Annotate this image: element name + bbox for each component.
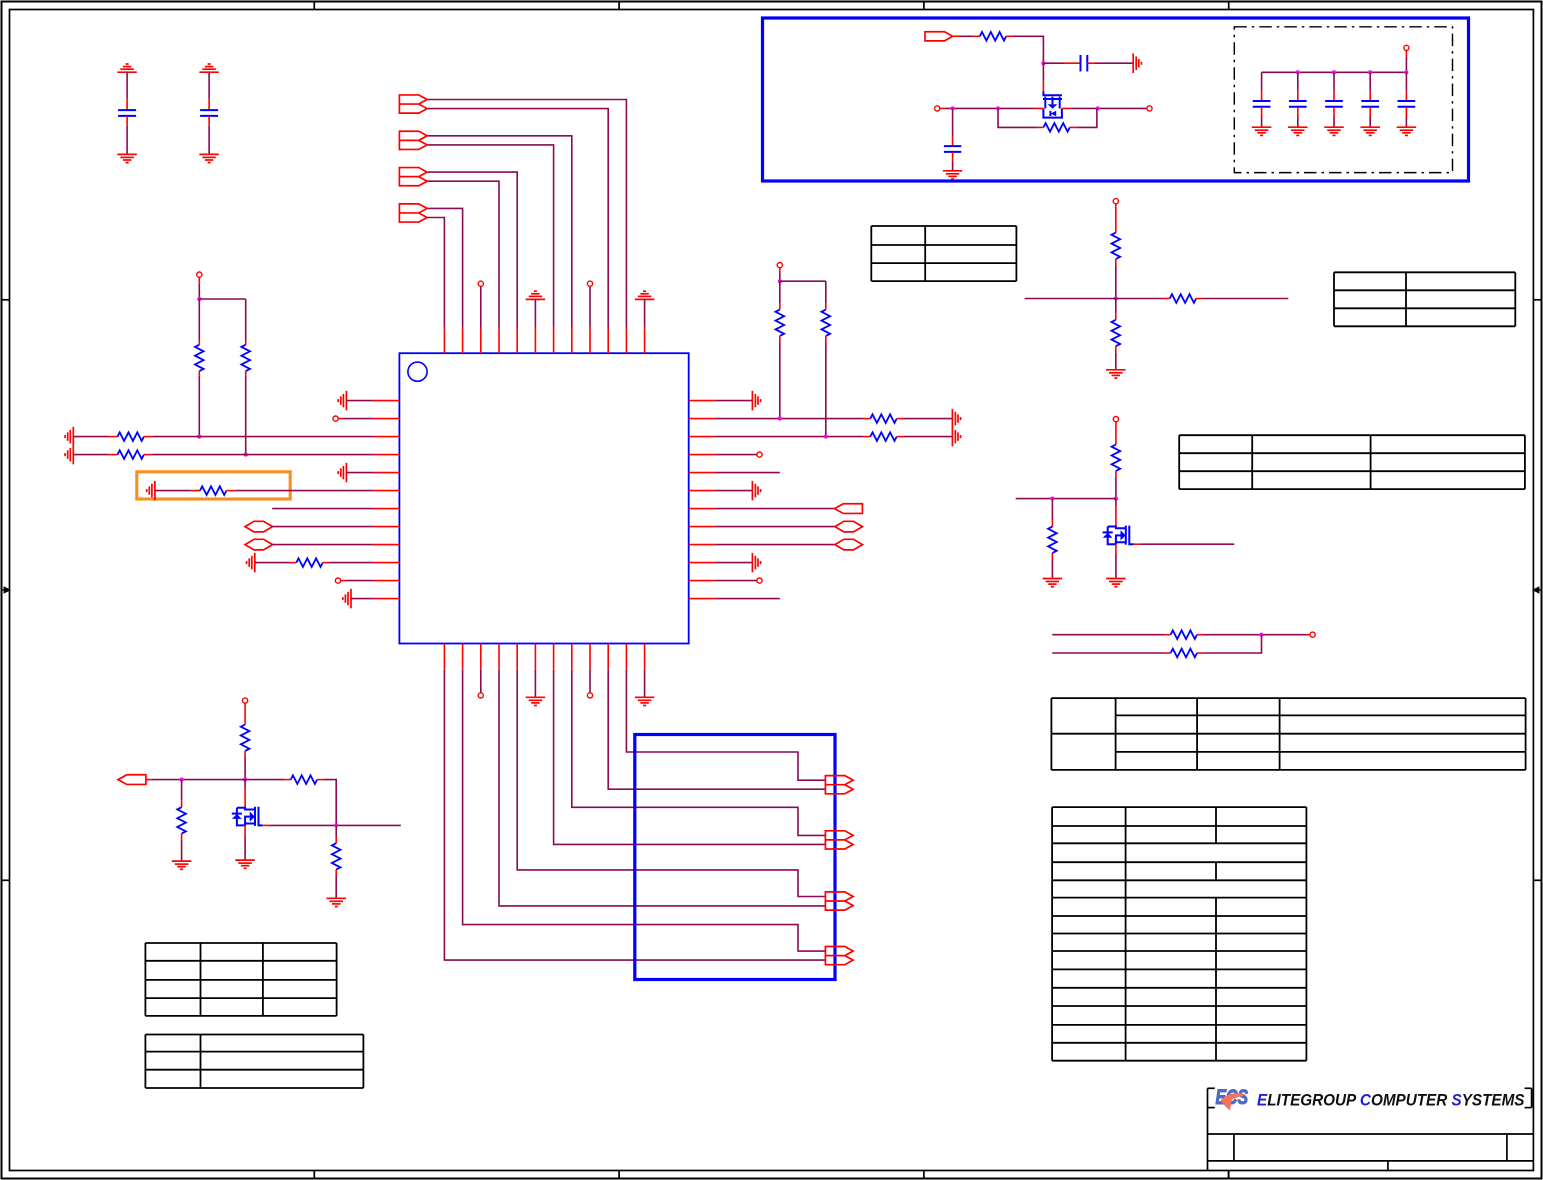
resistor R14 (horizontal) — [1170, 294, 1196, 303]
no-connect circle at ic pin y=454.6 — [715, 454, 757, 456]
junction node at 199.3,436.6 — [197, 435, 201, 439]
wire R7 down to wire y=418.6 — [779, 336, 781, 419]
border mid arrow right — [1532, 586, 1542, 593]
power circle above resistor R16 — [1113, 417, 1118, 422]
capacitor C4 — [944, 146, 961, 152]
resistor R20 (vertical) — [241, 725, 250, 751]
wire C8 to ground — [1369, 107, 1371, 127]
wire gate node down to mosfet Q1 gate — [1042, 63, 1044, 91]
resistor R19 (horizontal) — [1171, 649, 1197, 658]
ic U1 body — [399, 353, 688, 643]
wire bottom route pin x=553.6 to connector pair 2 lower — [554, 670, 826, 845]
off-page connector K3 (double, right) — [825, 892, 853, 910]
resistor R22 (horizontal) — [291, 775, 317, 784]
junction node at 998,108.4 — [996, 106, 1000, 110]
wire circle to junction — [198, 277, 200, 299]
off-page connector K2 (double, right) — [825, 831, 853, 849]
wire R19 up to junction — [1197, 635, 1262, 653]
resistor R15 (vertical) — [1112, 320, 1121, 346]
main rail circle left — [935, 106, 940, 111]
wire B: R4 to ic pin y=454.6 — [144, 454, 374, 456]
capacitor C3 (horizontal) — [1081, 55, 1088, 71]
wire Q3 source to ground — [244, 825, 246, 860]
junction node at 1334,72.3 — [1332, 70, 1336, 74]
wire down to resistor R7 — [779, 281, 781, 309]
wire B: power to resistor R4 — [73, 454, 117, 456]
wire junction to second pullup column right — [780, 280, 826, 282]
wire down to resistor R21 — [181, 780, 183, 808]
ground below C2 — [199, 154, 219, 162]
wire J2 upper to ic pin x=571.8 — [428, 136, 572, 327]
junction node at 1297.8,72.3 — [1296, 70, 1300, 74]
wire horizontal to left — [1016, 498, 1116, 500]
capacitor bank box (dash-dot) — [1234, 27, 1452, 173]
wire bottom route pin x=626.4 to connector pair 1 upper — [626, 670, 825, 781]
no-connect circle on top pin x=480.8 — [480, 286, 482, 327]
ground below C1 — [117, 154, 137, 162]
resistor R17 (vertical) — [1048, 527, 1057, 553]
power circle above resistor R13 — [1113, 199, 1118, 204]
junction node at 1406.4,72.3 — [1404, 70, 1408, 74]
resistor R8 (vertical) — [822, 310, 831, 336]
resistor R12 (bypass, horizontal) — [1043, 123, 1069, 132]
no-connect circle on bottom pin x=480.8 — [480, 670, 482, 693]
wire R21 to ground — [181, 834, 183, 862]
net connector hexagon H1 — [245, 521, 273, 532]
wire left to resistor R18 — [1052, 634, 1170, 636]
wire Q2 gate to right — [1134, 543, 1235, 545]
wire R13 to junction — [1115, 259, 1117, 299]
ic U1 right pin stubs — [689, 401, 715, 599]
power symbol above capacitor C1 — [117, 64, 137, 72]
table T7 — [145, 1035, 363, 1089]
wire C6 to ground — [1297, 107, 1299, 127]
wire J1 lower to ic pin x=608.2 — [428, 109, 609, 327]
junction node at 245.1,779.6 — [243, 778, 247, 782]
sideways ground at ic pin y=562.6 — [715, 562, 753, 564]
capacitor C1 — [118, 110, 136, 116]
capacitor C8 — [1361, 101, 1379, 107]
power symbol above capacitor C2 — [199, 64, 219, 72]
resistor R3 (horizontal) — [118, 432, 144, 441]
wire R15 to ground — [1115, 346, 1117, 370]
wire to ic pin y=598.6 — [351, 598, 373, 600]
ground on bottom pin x=644.6 — [644, 670, 646, 698]
wire A: R3 to ic pin y=436.6 — [144, 436, 374, 438]
net group box (blue) bottom — [635, 735, 835, 980]
resistor R6 (horizontal) — [296, 558, 322, 567]
wire ic pin y=436.6 to resistor R10 — [715, 436, 871, 438]
off-page connector K1 (double, right) — [825, 776, 853, 794]
wire bottom route pin x=517.2 to connector pair 3 upper — [517, 670, 825, 897]
wire rail left segment — [940, 107, 1044, 109]
wire J4 upper to ic pin x=462.6 — [428, 208, 463, 327]
wire C5 to ground — [1261, 107, 1263, 127]
resistor R2 (vertical) — [241, 345, 250, 371]
logo swoosh — [1221, 1093, 1247, 1111]
wire horizontal left of junction — [1025, 298, 1116, 300]
wire to ic pin y=418.6 — [338, 418, 373, 420]
table T3 — [1179, 435, 1525, 489]
wire circle to R16 — [1115, 422, 1117, 445]
wire bypass loop right leg — [1070, 108, 1097, 127]
junction node at 825.8,436.6 — [824, 435, 828, 439]
power symbol left of resistor R6 — [247, 553, 255, 573]
power symbol left of ic pin y=472.6 — [338, 463, 346, 483]
wire C2 to ground — [208, 116, 210, 154]
wire ic pin y=418.6 to resistor R9 — [715, 418, 871, 420]
wire R9 to sideways ground — [897, 418, 953, 420]
main rail circle right — [1147, 106, 1152, 111]
off-page connector J3 (double, right) — [399, 168, 427, 186]
junction node at 779.8,418.6 — [778, 417, 782, 421]
capacitor C7 — [1325, 101, 1343, 107]
wire circle to bus — [1405, 51, 1407, 73]
wire power to C2 — [208, 72, 210, 110]
highlight box (orange) around R5 network — [137, 472, 290, 499]
junction node at 1261.5,634.7 — [1259, 633, 1263, 637]
wire R6 to ic pin y=562.6 — [323, 562, 374, 564]
ground below Q2 — [1106, 579, 1126, 587]
power net circle above R1/R2 — [197, 272, 202, 277]
wire Q3 gate to junction and right — [263, 824, 401, 826]
ground below R15 — [1106, 370, 1126, 378]
table T5 — [1052, 807, 1306, 1061]
net connector hexagon H2 — [245, 539, 273, 550]
net circle right of R18 — [1310, 632, 1315, 637]
wire down to resistor R1 — [198, 299, 200, 345]
wire C7 to ground — [1333, 107, 1335, 127]
resistor R21 (vertical) — [177, 807, 186, 833]
wire down to resistor R8 — [825, 281, 827, 309]
resistor R16 (vertical) — [1112, 445, 1121, 471]
wire junction down to mosfet Q3 drain — [244, 780, 246, 808]
ground below C5 — [1252, 127, 1272, 135]
sideways ground at 1133.2,63.2 — [1133, 53, 1141, 72]
off-page connector J2 (double, right) — [399, 131, 427, 149]
power symbol left of ic pin y=598.6 — [343, 589, 351, 609]
wire R5 to ic pin y=490.6 — [226, 490, 373, 492]
power block box (blue) top-right — [763, 18, 1469, 181]
power circle of capacitor bank — [1404, 45, 1409, 50]
ground below R23 — [326, 898, 346, 906]
wire bottom route pin x=444.4 to connector pair 4 lower — [444, 670, 825, 960]
junction node at 952.6,108.4 — [951, 106, 955, 110]
wire bypass loop left leg — [998, 108, 1043, 127]
resistor R9 (horizontal) — [870, 414, 896, 423]
mosfet Q3 — [232, 807, 263, 826]
wire junction down to mosfet Q2 drain — [1115, 499, 1117, 527]
capacitor C6 — [1289, 101, 1307, 107]
wire J3 lower to ic pin x=499 — [428, 181, 499, 327]
sideways ground at ic pin y=400.6 — [715, 400, 753, 402]
ic U1 bottom pin stubs — [444, 644, 644, 670]
ic U1 top pin stubs — [444, 327, 644, 353]
power symbol on top pin x=535.4 — [526, 291, 546, 299]
pullup circle right pair — [777, 263, 782, 268]
wire power to resistor R5 — [155, 490, 200, 492]
no-connect circle on top pin x=590 — [589, 286, 591, 327]
wire J1 upper to ic pin x=626.4 — [428, 100, 627, 328]
wire R8 down to wire y=436.6 — [825, 336, 827, 437]
wire C3 to sideways ground — [1087, 62, 1133, 64]
wire C4 to ground — [952, 152, 954, 171]
power circle above resistor R20 — [243, 698, 248, 703]
wire connector to resistor R11 — [953, 35, 980, 37]
wire R20 to main junction — [244, 751, 246, 780]
wire bottom route pin x=499 to connector pair 3 lower — [499, 670, 825, 906]
capacitor C5 — [1253, 101, 1271, 107]
logo ECS mark — [1216, 1085, 1249, 1109]
net connector hexagon H4 at ic pin y=544.6 — [715, 544, 835, 546]
ground below C9 — [1397, 127, 1417, 135]
ground on bottom pin x=535.4 — [534, 670, 536, 698]
wire R23 to ground — [335, 870, 337, 899]
title block table lines — [1208, 1134, 1534, 1179]
wire junction down to resistor R23 — [335, 825, 337, 843]
power symbol at far left of wire B — [65, 445, 73, 465]
wire circle to R20 — [244, 703, 246, 724]
wire J4 lower to ic pin x=444.4 — [428, 218, 445, 328]
resistor R23 (vertical) — [332, 843, 341, 869]
wire to ic pin y=472.6 — [346, 472, 373, 474]
no-connect circle left of ic pin y=418.6 — [333, 416, 338, 421]
no-connect circle on bottom pin x=590 — [589, 670, 591, 693]
ground below R17 — [1043, 579, 1063, 587]
wire bus to capacitor C5 — [1261, 72, 1263, 101]
table T4 — [1051, 698, 1525, 770]
wire bottom route pin x=571.8 to connector pair 2 upper — [572, 670, 826, 836]
table T1 — [871, 226, 1016, 281]
ic U1 left pin stubs — [373, 401, 399, 599]
wire junction to capacitor C3 — [1043, 62, 1080, 64]
resistor R4 (horizontal) — [118, 450, 144, 459]
wire bus to capacitor C9 — [1405, 72, 1407, 101]
ground below C4 — [943, 171, 963, 179]
resistor R7 (vertical) — [776, 310, 785, 336]
wire circle to R13 — [1115, 204, 1117, 233]
resistor R1 (vertical) — [195, 345, 204, 371]
wire R16 to junction — [1115, 471, 1117, 499]
capacitor bank bus wire — [1262, 71, 1407, 73]
power symbol left of ic pin y=400.6 — [338, 391, 346, 411]
junction node at 1043.4,63.2 — [1041, 61, 1045, 65]
wire junction to resistor R14 — [1116, 298, 1170, 300]
wire H2 to ic pin y=544.6 — [273, 544, 374, 546]
wire down to resistor R17 — [1051, 499, 1053, 527]
wire R11 to gate node — [1006, 36, 1043, 63]
resistor R13 (vertical) — [1112, 233, 1121, 259]
wire junction to second pullup column — [199, 298, 245, 300]
wire R1 to wire A junction — [198, 371, 200, 437]
wire C1 to ground — [126, 116, 128, 154]
capacitor C2 — [200, 110, 218, 116]
sideways ground at ic pin y=490.6 — [715, 490, 753, 492]
wire junction down to capacitor C4 — [952, 108, 954, 146]
wire connector to junctions — [146, 779, 245, 781]
junction node at 1115.8,298.5 — [1114, 296, 1118, 300]
wire J2 lower to ic pin x=553.6 — [428, 145, 554, 327]
wire C9 to ground — [1405, 107, 1407, 127]
mosfet Q2 — [1103, 526, 1134, 545]
wire J3 upper to ic pin x=517.2 — [428, 172, 518, 327]
off-page connector (left pentagon) at ic pin y=508.6 — [715, 508, 835, 510]
junction node at 199.3,299 — [197, 297, 201, 301]
wire down to resistor R2 — [245, 299, 247, 345]
wire to ic pin y=400.6 — [346, 400, 373, 402]
power symbol inside highlight box — [147, 481, 155, 501]
wire left to resistor R19 — [1052, 652, 1170, 654]
resistor R10 (horizontal) — [870, 432, 896, 441]
junction node at 1370.2,72.3 — [1368, 70, 1372, 74]
wire R2 to wire B junction — [245, 371, 247, 455]
capacitor C9 — [1398, 101, 1416, 107]
no-connect circle at ic pin y=580.6 — [715, 580, 757, 582]
wire H1 to ic pin y=526.6 — [273, 526, 374, 528]
title block left rail and brackets — [1208, 1088, 1532, 1170]
ground below C6 — [1288, 127, 1308, 135]
svg-text:ELITEGROUP COMPUTER SYSTEMS: ELITEGROUP COMPUTER SYSTEMS — [1257, 1091, 1525, 1110]
off-page connector K4 (double, right) — [825, 947, 853, 965]
resistor R11 (horizontal) — [980, 32, 1006, 41]
sideways ground at y=436.6 — [952, 427, 960, 447]
junction node at 1115.9,498.6 — [1114, 497, 1118, 501]
wire R17 to ground — [1051, 553, 1053, 579]
wire bus to capacitor C8 — [1369, 72, 1371, 101]
wire junction down to resistor R15 — [1115, 299, 1117, 320]
wire R18 to circle — [1197, 634, 1310, 636]
resistor R18 (horizontal) — [1171, 630, 1197, 639]
sideways ground at y=418.6 — [952, 409, 960, 429]
table T6 — [145, 943, 336, 1016]
junction node at 1097.8,108.4 — [1096, 106, 1100, 110]
no-connect circle left of ic pin y=580.6 — [335, 578, 340, 583]
ground below Q3 — [235, 860, 255, 868]
ground below C7 — [1324, 127, 1344, 135]
wire power to C1 — [126, 72, 128, 110]
wire to ic pin y=580.6 — [341, 580, 374, 582]
wire rail right segment — [1062, 107, 1147, 109]
wire bottom route pin x=608.2 to connector pair 1 lower — [608, 670, 825, 790]
wire bus to capacitor C7 — [1333, 72, 1335, 101]
wire A: power to resistor R3 — [73, 436, 117, 438]
border mid arrow left — [2, 586, 12, 593]
wire bus to capacitor C6 — [1297, 72, 1299, 101]
wire R10 to sideways ground — [897, 436, 953, 438]
table T2 — [1334, 272, 1515, 326]
power symbol on top pin x=644.6 — [635, 291, 655, 299]
junction node at 181.6,779.6 — [180, 778, 184, 782]
wire Q2 source to ground — [1115, 544, 1117, 578]
wire stub ic pin y=598.6 — [715, 598, 780, 600]
mosfet Q1 (pass transistor) — [1043, 91, 1062, 117]
junction node at 245.7,454.6 — [244, 453, 248, 457]
off-page connector (left pentagon) bottom-left — [118, 775, 146, 785]
off-page connector J1 (double, right) — [399, 95, 427, 113]
ground below C8 — [1360, 127, 1380, 135]
wire bottom route pin x=462.6 to connector pair 4 upper — [463, 670, 826, 951]
power symbol at far left of wire A — [65, 427, 73, 447]
resistor R5 (horizontal) — [200, 486, 226, 495]
wire junction to resistor R22 — [245, 779, 291, 781]
wire circle to junction — [779, 268, 781, 282]
junction node at 336.2,825.2 — [334, 823, 338, 827]
wire stub to ic pin y=508.6 — [272, 508, 373, 510]
junction node at 1052.4,498.6 — [1050, 497, 1054, 501]
wire power to resistor R6 — [255, 562, 296, 564]
net connector hexagon H3 at ic pin y=526.6 — [715, 526, 835, 528]
off-page connector (pentagon right) in power box — [925, 32, 953, 41]
wire stub ic pin y=472.6 — [715, 472, 780, 474]
ic U1 pin-1 index circle — [408, 362, 427, 381]
wire R14 to right end — [1196, 298, 1288, 300]
junction node at 779.8,281.2 — [778, 279, 782, 283]
wire R22 to right column — [317, 780, 336, 826]
ground below R21 — [172, 861, 192, 869]
off-page connector J4 (double, right) — [399, 204, 427, 222]
